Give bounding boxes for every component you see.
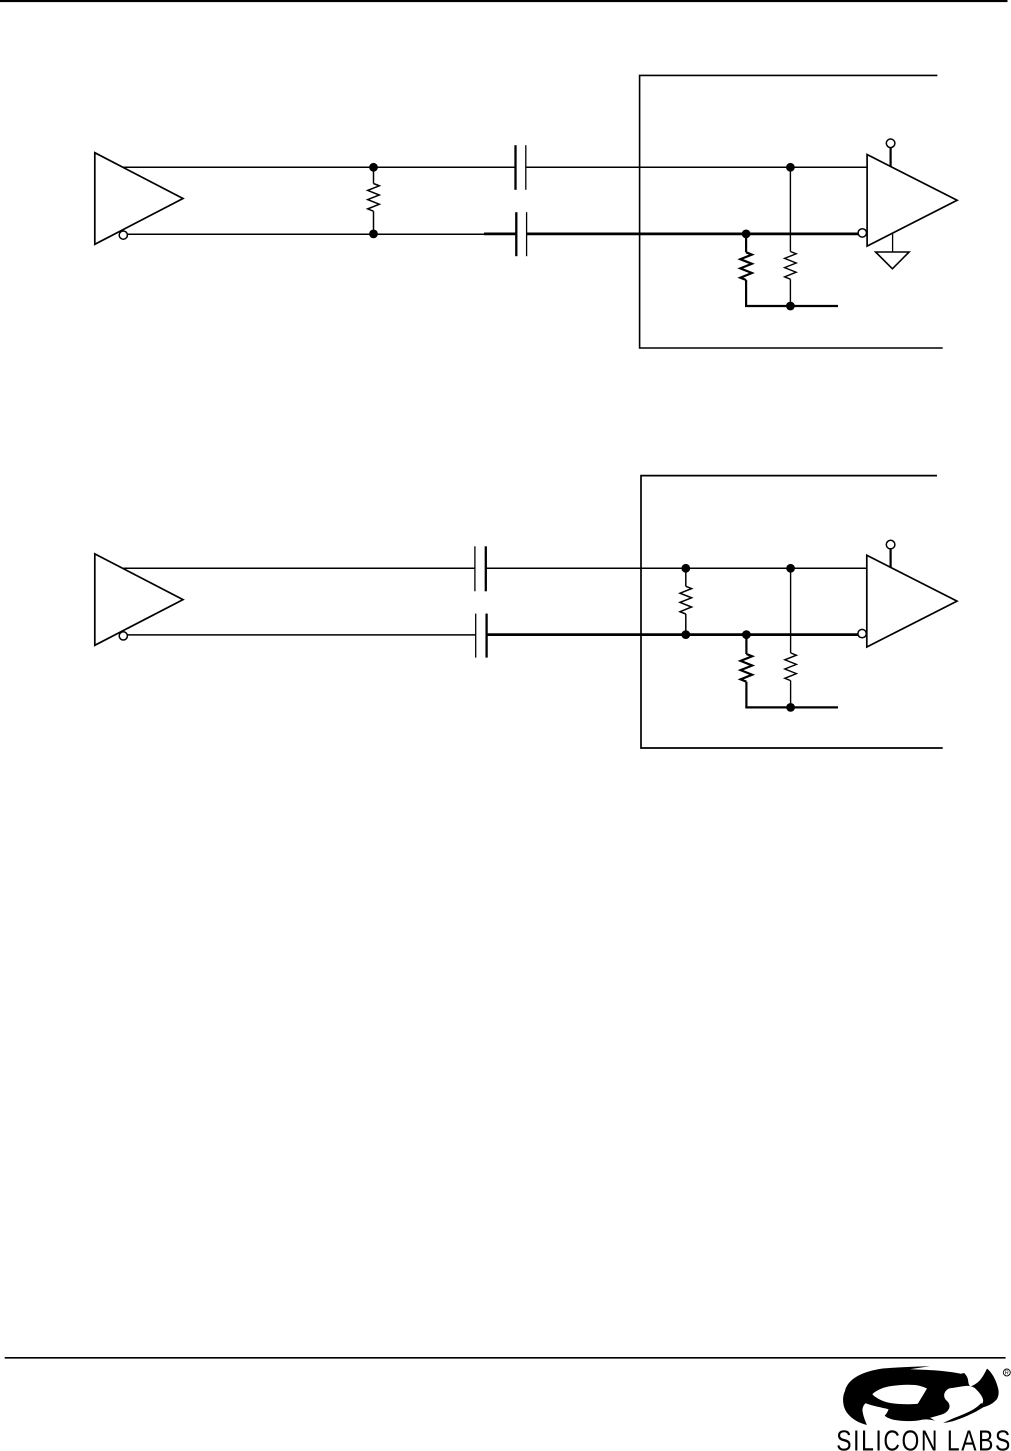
wire: top net right segment (C1 to U2 in+) <box>526 166 868 168</box>
capacitor C1 (top, AC coupling) <box>516 145 526 190</box>
wire: bottom net thick segment (C2 to U2 in-) <box>527 232 859 235</box>
resistor R5 (bias, from top net) <box>785 653 797 708</box>
wire: bias rail <box>745 706 838 708</box>
capacitor C2 (bottom, AC coupling) <box>516 212 526 256</box>
junction dot: top net at R4 <box>681 564 690 573</box>
junction dot: top net at R2 <box>786 163 795 172</box>
capacitor C4 (bottom, AC coupling) <box>476 614 487 658</box>
junction dot: bottom net at R1 <box>369 230 378 239</box>
receiver U2 <box>867 155 957 247</box>
wire: top net left segment (U1 out+ to C1) <box>124 166 516 168</box>
resistor R3 (bias, from bottom net) <box>740 234 752 306</box>
driver U1 <box>95 153 183 245</box>
registered trademark mark <box>1003 1369 1010 1377</box>
junction dot: bottom net at R4 <box>681 630 690 639</box>
footer rule <box>5 1357 1006 1359</box>
resistor R1 (differential termination at driver) <box>368 167 380 234</box>
wire: top net right segment (C3 to U4 in+) <box>486 567 867 569</box>
junction dot: bias rail <box>786 302 795 311</box>
wire: top net left segment (U3 out+ to C3) <box>124 567 475 569</box>
enable pin stub and circle of U4 <box>889 548 891 568</box>
resistor R2 (bias, from top net) <box>785 252 797 307</box>
header rule (top black bar) <box>0 0 1008 2</box>
wire: bias rail <box>745 305 838 307</box>
enable pin stub and circle of U2 <box>889 147 891 167</box>
resistor R6 (bias, from bottom net) <box>741 635 753 708</box>
svg-text:SILICON LABS: SILICON LABS <box>836 1424 1011 1451</box>
chip outline (receiver side, circuit 1) <box>640 75 943 348</box>
ground symbol <box>876 252 910 269</box>
resistor R4 (differential termination inside chip) <box>680 568 692 634</box>
wire: bottom net thick segment (C4 to U4 in-) <box>487 633 859 636</box>
svg-text:R: R <box>1005 1371 1009 1377</box>
junction dot: top net at R1 <box>369 163 378 172</box>
junction dot: bias rail <box>786 703 795 712</box>
inverting-input bubble of U2 <box>858 229 866 237</box>
junction dot: bottom net at R6 <box>742 630 751 639</box>
capacitor C3 (top, AC coupling) <box>475 546 486 591</box>
junction dot: bottom net at R3 <box>742 230 751 239</box>
wire: top net down to R2 <box>789 167 791 251</box>
inverting-input bubble of U4 <box>858 629 866 637</box>
receiver U4 <box>867 555 957 647</box>
chip outline (receiver side, circuit 2) <box>641 476 943 748</box>
inverting-output bubble of U3 <box>119 632 127 640</box>
ground stub at U2 <box>892 234 894 253</box>
inverting-output bubble of U1 <box>119 231 127 239</box>
Silicon Labs logo swirl <box>843 1366 999 1427</box>
wire: bottom net thick lead-in to C2 <box>484 232 516 235</box>
junction dot: top net at R5 <box>786 564 795 573</box>
wire: top net down to R5 <box>790 568 792 653</box>
wire: bottom net thin segment (U1 out-) <box>127 233 498 235</box>
driver U3 <box>95 554 183 645</box>
wire: bottom net thin segment (U3 out-) <box>127 634 475 636</box>
